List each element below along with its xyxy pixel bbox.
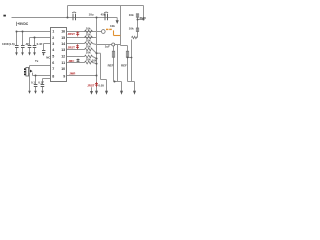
svg-text:10k: 10k [129, 13, 134, 17]
svg-text:JRST: JRST [68, 46, 76, 50]
svg-text:0.1: 0.1 [31, 80, 35, 84]
svg-text:1: 1 [52, 30, 54, 34]
svg-text:100F(1.6): 100F(1.6) [2, 42, 15, 46]
svg-text:.4F: .4F [25, 42, 29, 46]
svg-text:10k: 10k [86, 27, 91, 31]
svg-text:11: 11 [61, 61, 65, 65]
svg-text:+5VDC: +5VDC [17, 22, 29, 26]
svg-text:4: 4 [52, 48, 54, 52]
svg-text:0.05: 0.05 [98, 83, 104, 87]
svg-text:JRST: JRST [87, 83, 95, 87]
svg-text:10k: 10k [129, 27, 134, 31]
svg-text:12: 12 [61, 55, 65, 59]
svg-text:10u: 10u [89, 13, 94, 17]
svg-text:3: 3 [52, 42, 54, 46]
svg-text:JMC: JMC [68, 59, 75, 63]
svg-text:0.4F: 0.4F [37, 42, 43, 46]
svg-text:10k: 10k [92, 59, 97, 63]
svg-text:RxD: RxD [140, 16, 147, 20]
svg-text:14: 14 [61, 42, 65, 46]
svg-text:2: 2 [52, 36, 54, 40]
svg-text:13: 13 [61, 48, 65, 52]
svg-text:8: 8 [52, 74, 54, 78]
svg-text:10k: 10k [86, 33, 91, 37]
svg-text:1uF: 1uF [105, 45, 110, 49]
svg-text:10k: 10k [86, 39, 91, 43]
svg-text:10k: 10k [86, 57, 91, 61]
svg-text:5: 5 [52, 55, 54, 59]
svg-text:9: 9 [63, 74, 65, 78]
svg-text:10: 10 [61, 67, 65, 71]
svg-text:7: 7 [52, 67, 54, 71]
svg-text:15: 15 [61, 36, 65, 40]
svg-text:REF: REF [121, 64, 127, 68]
svg-text:10k: 10k [86, 51, 91, 55]
svg-text:45B: 45B [101, 13, 106, 17]
svg-text:JMR: JMR [69, 72, 76, 76]
svg-text:0.1F: 0.1F [38, 80, 44, 84]
svg-text:10k: 10k [110, 24, 115, 28]
svg-text:16: 16 [61, 30, 65, 34]
svg-text:JRST: JRST [68, 32, 76, 36]
svg-text:Tx: Tx [35, 59, 39, 63]
svg-text:10k: 10k [86, 45, 91, 49]
svg-text:REF: REF [108, 64, 114, 68]
svg-text:6: 6 [52, 61, 54, 65]
